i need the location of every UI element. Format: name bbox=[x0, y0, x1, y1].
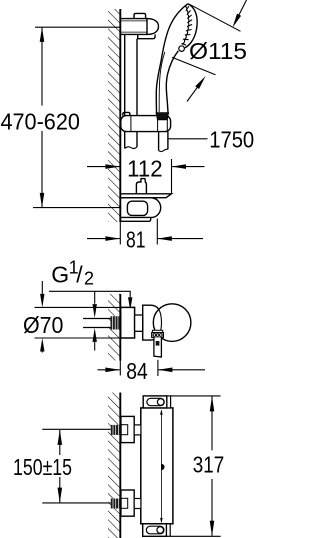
bottom end cap bbox=[143, 524, 167, 537]
rail end cap above bottom bracket bbox=[136, 179, 146, 194]
outlet collar bbox=[152, 330, 162, 332]
upper union thread in wall bbox=[111, 425, 121, 435]
dimension 150±15 bbox=[42, 428, 111, 430]
wall (bottom diagram) hatching bbox=[108, 393, 120, 538]
mixer knob (side view circle) bbox=[153, 304, 191, 342]
wall (middle diagram) hatching bbox=[108, 294, 120, 361]
clamp button on top bracket bbox=[134, 13, 146, 18]
spray face scallop texture bbox=[182, 6, 189, 43]
svg-text:1750: 1750 bbox=[209, 127, 254, 153]
svg-text:/: / bbox=[76, 261, 83, 287]
bracket body bbox=[120, 198, 160, 218]
label 1750 (hose length) leader bbox=[168, 138, 207, 140]
outlet recess (dark) bbox=[156, 341, 160, 346]
dimension Ø70 extension lines bbox=[35, 306, 135, 308]
G1/2 leader line bbox=[49, 291, 130, 304]
thermostat body bar bbox=[141, 408, 173, 524]
centre mark blob bbox=[161, 464, 164, 470]
dimension Ø70 bbox=[41, 281, 43, 297]
outlet tube bbox=[154, 337, 162, 357]
svg-text:81: 81 bbox=[126, 227, 146, 253]
spray face outer rim bbox=[185, 4, 197, 48]
dimension 81 bbox=[119, 222, 121, 245]
bracket lower lip bbox=[120, 217, 150, 221]
wall face line (bottom diagram) bbox=[119, 393, 121, 538]
svg-text:317: 317 bbox=[193, 452, 225, 478]
lower union thread in wall bbox=[111, 499, 121, 509]
svg-text:470-620: 470-620 bbox=[0, 109, 80, 135]
internal centre line with small arrows bbox=[160, 412, 162, 522]
dimension 112 bbox=[171, 159, 173, 194]
soap dish plate bbox=[120, 194, 171, 198]
escutcheon (mixer) bbox=[121, 307, 135, 338]
mixer body bbox=[143, 305, 159, 340]
dimension 317 bbox=[171, 395, 221, 397]
svg-text:84: 84 bbox=[126, 358, 148, 384]
knurled nut bbox=[152, 333, 164, 338]
slider holder on rail bbox=[121, 112, 171, 131]
wall face line (top diagram) bbox=[119, 9, 121, 222]
hand shower inlet cone (dark) in holder bbox=[156, 113, 169, 120]
svg-text:150±15: 150±15 bbox=[13, 454, 72, 480]
hand shower head and handle bbox=[156, 4, 197, 113]
spray mode button bbox=[179, 46, 185, 52]
dimension Ø115 (hand shower) bbox=[189, 4, 240, 31]
svg-text:G: G bbox=[51, 261, 69, 287]
top end cap bbox=[143, 396, 167, 408]
shower hose below holder, broken end bbox=[159, 132, 168, 152]
svg-text:2: 2 bbox=[84, 269, 94, 289]
bracket skirt under ball bbox=[138, 34, 155, 38]
svg-text:Ø115: Ø115 bbox=[189, 38, 247, 64]
top bracket of shower rail bbox=[120, 13, 158, 38]
supply pipe in wall bbox=[83, 319, 110, 328]
rail tube lower stub below holder, broken end bbox=[124, 132, 126, 149]
upper wall union bbox=[121, 416, 141, 442]
pipe thread block bbox=[111, 316, 120, 329]
wall (top diagram) hatching bbox=[108, 9, 120, 222]
lower wall union bbox=[121, 490, 141, 516]
dimension 84 bbox=[119, 361, 121, 376]
svg-text:Ø70: Ø70 bbox=[23, 312, 64, 338]
mixer connection stub bbox=[135, 315, 143, 331]
svg-text:112: 112 bbox=[127, 155, 163, 181]
shower rail tube (upper part) bbox=[125, 34, 137, 148]
dimension 470-620 bbox=[33, 27, 120, 207]
bottom bracket of shower rail bbox=[120, 179, 171, 222]
wall face line (middle diagram) bbox=[119, 294, 121, 361]
